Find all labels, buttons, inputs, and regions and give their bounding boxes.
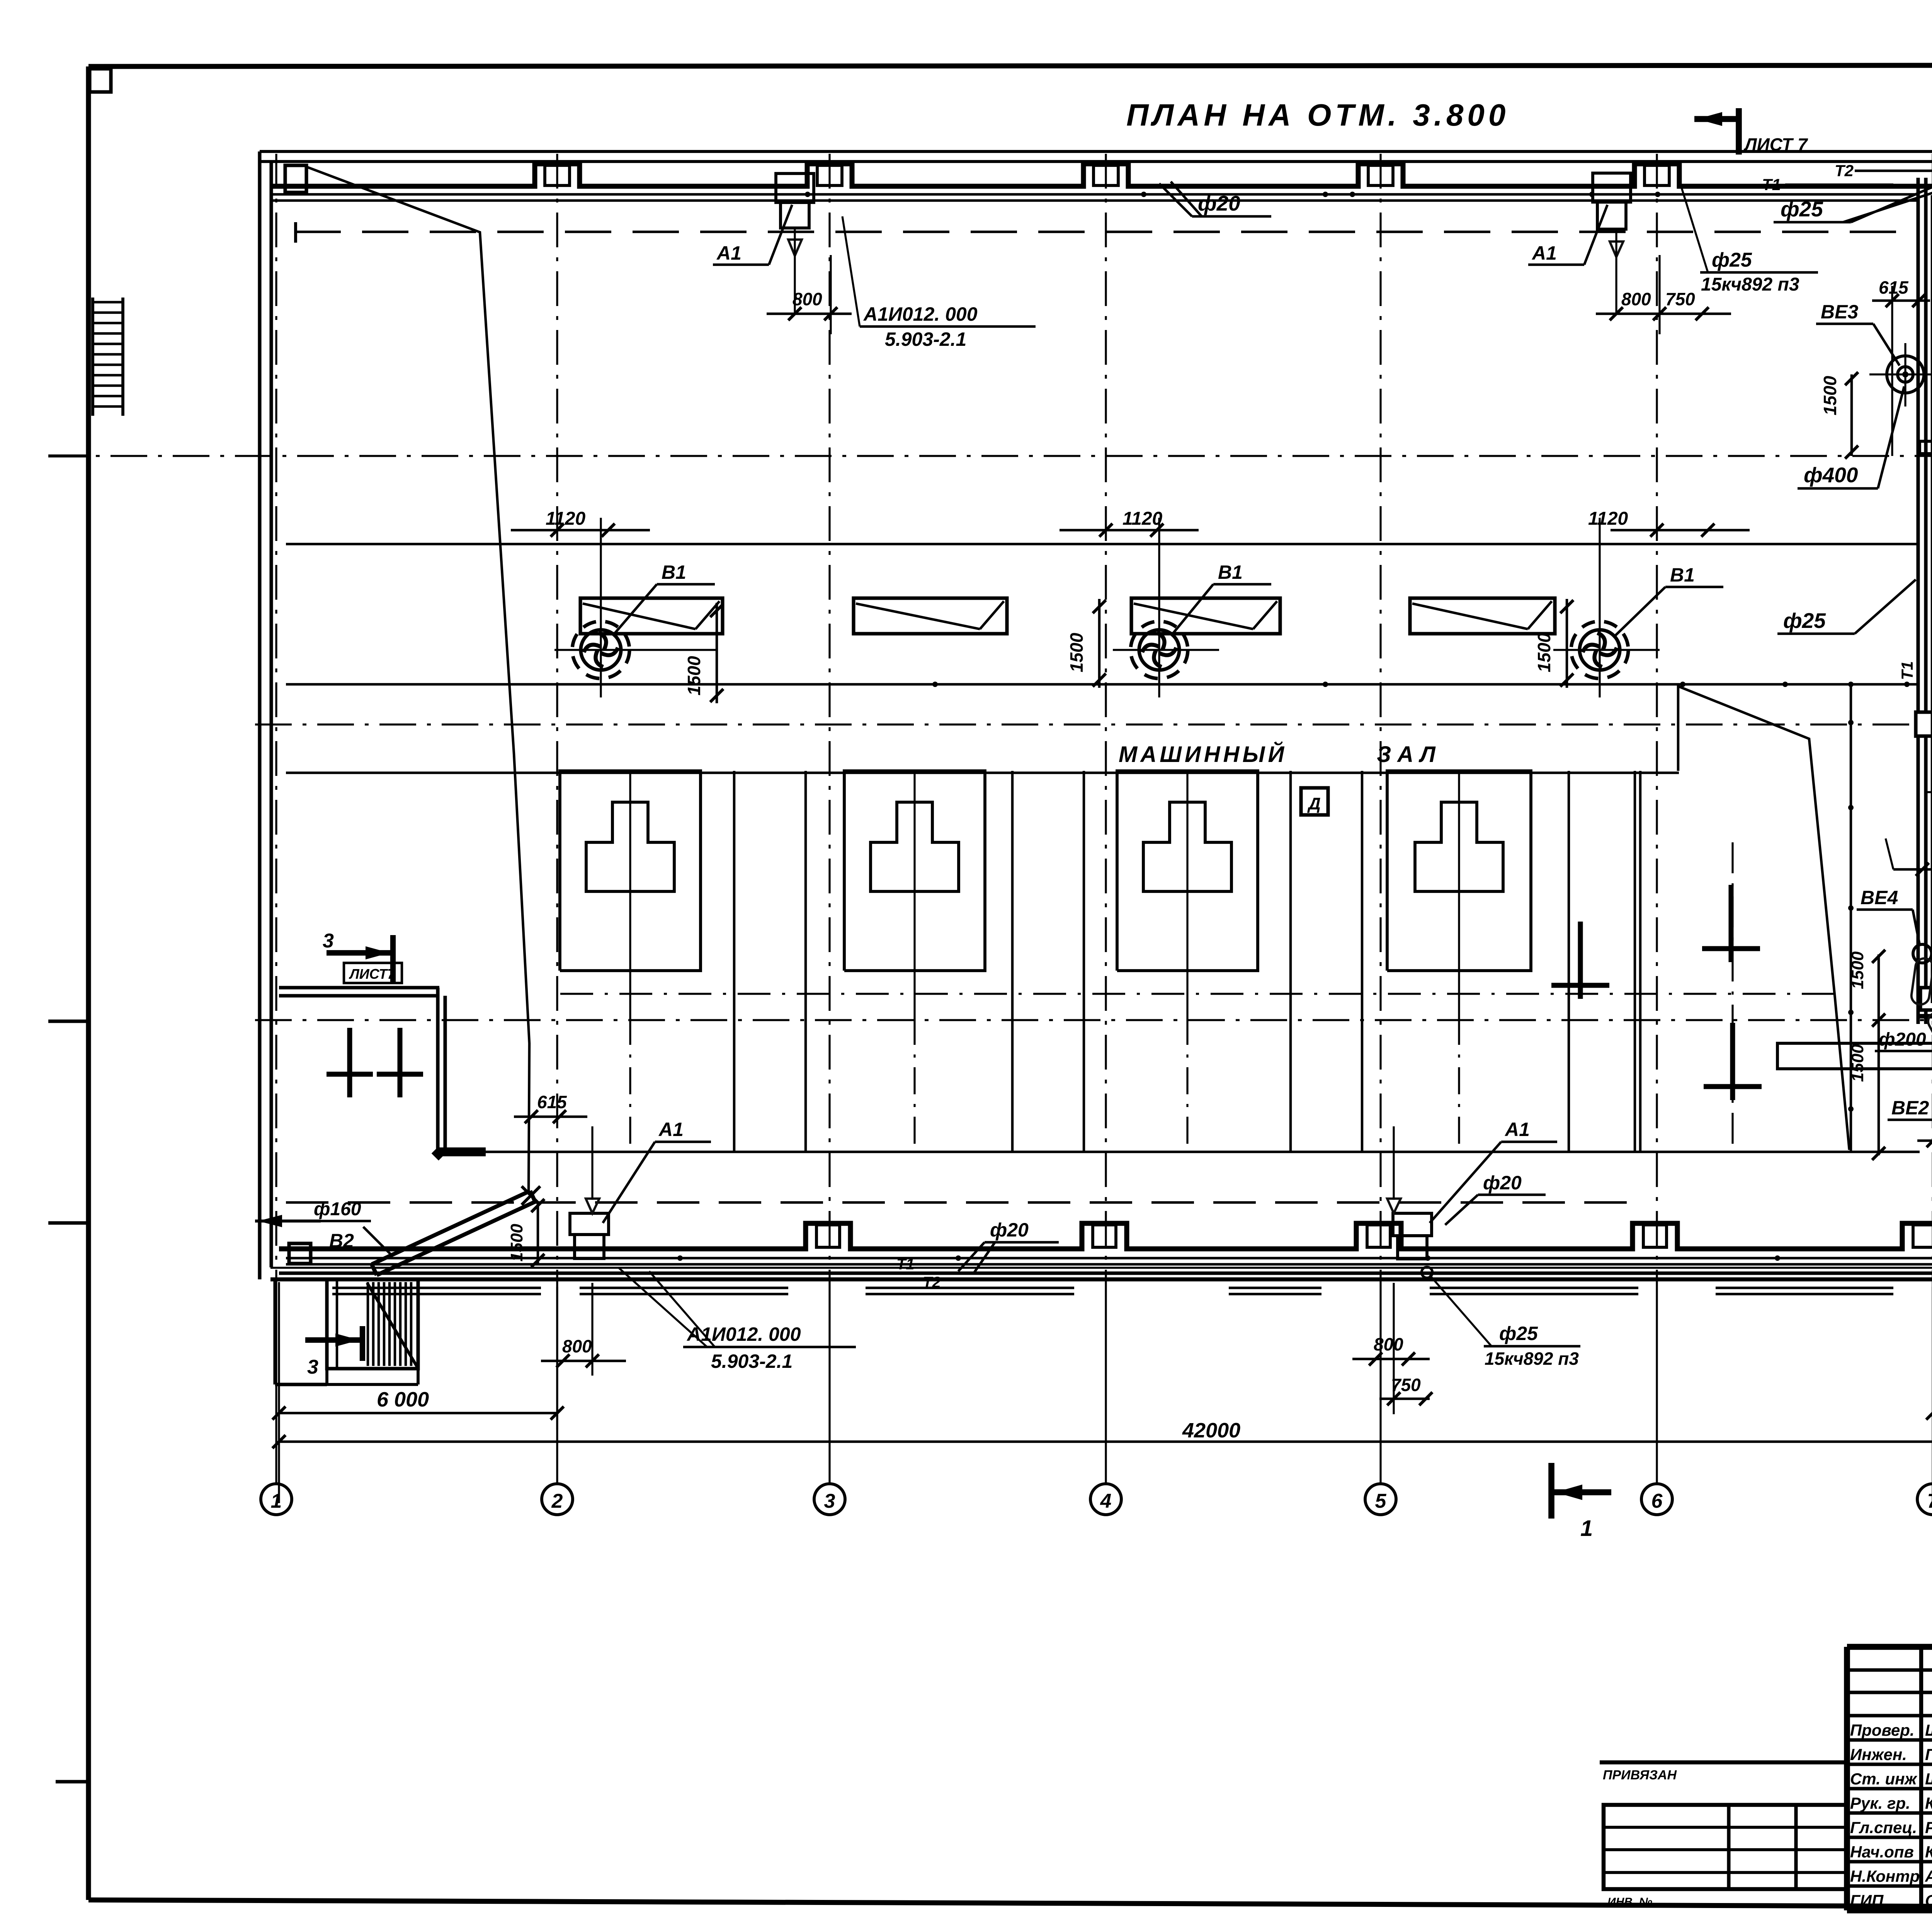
dimension 800 750 bottom center <box>1352 1283 1432 1414</box>
svg-text:ф20: ф20 <box>990 1219 1029 1241</box>
top wall heating pipe T1 meander with column niches <box>271 164 1920 186</box>
svg-text:Ст. инж: Ст. инж <box>1850 1770 1917 1788</box>
svg-text:ГИП: ГИП <box>1850 1891 1884 1910</box>
label ф20 bottom right of unit <box>1445 1172 1546 1225</box>
compressor machines T-shaped outlines <box>586 773 1503 1144</box>
corner column axis1 <box>285 165 306 192</box>
svg-text:РЫВКИС: РЫВКИС <box>1925 1818 1932 1837</box>
Т1 riser pipes along partition <box>1898 195 1932 1003</box>
svg-text:800: 800 <box>1374 1334 1403 1354</box>
svg-text:В1: В1 <box>662 561 686 583</box>
section mark 3 upper left <box>323 930 402 983</box>
vertical grid axis dash-dot lines 1-8 <box>276 154 1932 1484</box>
svg-text:6 000: 6 000 <box>377 1388 429 1411</box>
detail marker Д box in hall <box>1301 788 1328 815</box>
dimension 615 left <box>514 1092 587 1123</box>
left frame tick marks <box>48 456 90 1782</box>
svg-text:1120: 1120 <box>1588 509 1628 529</box>
label А1И012.000 5.903-2.1 top left <box>842 216 1036 350</box>
bottom outer apron band segments <box>332 1288 1932 1294</box>
label ф25 15кч892п3 bottom <box>1422 1267 1580 1369</box>
svg-text:Т2: Т2 <box>1835 162 1854 180</box>
grid circles 1-8 bottom <box>261 1484 1932 1515</box>
svg-text:7: 7 <box>1927 1490 1932 1512</box>
svg-text:В1: В1 <box>1670 564 1695 586</box>
svg-text:Т1: Т1 <box>896 1256 915 1273</box>
svg-text:1500: 1500 <box>1534 633 1554 672</box>
svg-text:4: 4 <box>1100 1490 1112 1512</box>
labels Т1 Т2 bottom center <box>896 1256 941 1291</box>
top wall column boxes at axes <box>545 165 1669 185</box>
svg-text:Д: Д <box>1307 794 1321 813</box>
svg-text:ПРИВЯЗАН: ПРИВЯЗАН <box>1603 1768 1677 1782</box>
svg-text:42000: 42000 <box>1182 1419 1240 1442</box>
svg-text:1500: 1500 <box>1066 633 1087 672</box>
svg-text:800: 800 <box>562 1336 592 1356</box>
svg-text:800: 800 <box>793 289 822 309</box>
partition wall between hall and annex <box>1918 178 1926 1024</box>
machine room south line <box>439 1151 1920 1153</box>
horizontal grid axis dash-dot lines А-Д <box>48 182 1932 1268</box>
bottom air unit А1 left <box>570 1119 711 1259</box>
fan В1 leader labels <box>614 561 1723 638</box>
labels Т1 Т2 top <box>1762 162 1932 194</box>
svg-text:5: 5 <box>1375 1490 1387 1512</box>
svg-text:15кч892 п3: 15кч892 п3 <box>1701 274 1799 295</box>
svg-text:Гл.спец.: Гл.спец. <box>1850 1818 1917 1837</box>
svg-text:3: 3 <box>323 930 334 952</box>
svg-text:КИРИЧЕНКО: КИРИЧЕНКО <box>1925 1794 1932 1812</box>
crane rail line upper <box>286 543 1920 546</box>
svg-text:800: 800 <box>1621 289 1651 309</box>
bench rectangle long upper <box>1777 1043 1932 1069</box>
svg-text:Рук. гр.: Рук. гр. <box>1850 1794 1910 1812</box>
svg-text:КОМОВ: КОМОВ <box>1925 1843 1932 1861</box>
svg-text:ОСТАШЕВСКИЙ: ОСТАШЕВСКИЙ <box>1925 1891 1932 1910</box>
svg-text:1120: 1120 <box>1122 509 1163 529</box>
machine foundation bays <box>560 771 1531 971</box>
В2 drain arrow and labels <box>255 1199 390 1254</box>
long diagonal line from top-left corner to bottom <box>307 167 529 1192</box>
section mark 3 lower left <box>305 1326 362 1378</box>
dimension 800 750 top right <box>1596 255 1731 334</box>
inclined conveyor ladder <box>372 1186 540 1275</box>
svg-text:1500: 1500 <box>507 1224 526 1262</box>
fan dimension 1120 labels with dim lines <box>511 509 1750 537</box>
svg-text:Нач.опв: Нач.опв <box>1850 1843 1914 1861</box>
label ф25 mid annex leader <box>1777 580 1916 634</box>
svg-text:АРАПОВА: АРАПОВА <box>1925 1867 1932 1885</box>
bottom wall heating pipe meander with column niches <box>286 1223 1932 1249</box>
svg-text:МАШИННЫЙ: МАШИННЫЙ <box>1119 742 1287 767</box>
small column box bottom left <box>289 1243 311 1264</box>
dimension 800 top left <box>767 255 852 334</box>
large diagonal quad right side of hall <box>1635 684 1854 1152</box>
registration box top-left corner <box>90 69 111 92</box>
svg-text:ЛИСТ 7: ЛИСТ 7 <box>1743 134 1808 155</box>
air unit А1 top near axis 2 <box>713 173 814 313</box>
svg-text:3: 3 <box>824 1490 835 1512</box>
svg-text:А1И012. 000: А1И012. 000 <box>863 303 978 325</box>
label ф20 top center with leader <box>1159 182 1271 216</box>
dimension 6000 right <box>1926 1384 1932 1420</box>
svg-text:5.903-2.1: 5.903-2.1 <box>711 1350 793 1372</box>
ventilation louvers top band <box>580 598 1555 634</box>
svg-text:А1: А1 <box>1531 242 1557 264</box>
left attachment table <box>1600 1762 1847 1908</box>
svg-text:6: 6 <box>1651 1490 1663 1512</box>
ВЕ4 fan small with flexible duct <box>1857 887 1932 1006</box>
svg-text:ЩЕТКОВСКИЙ: ЩЕТКОВСКИЙ <box>1925 1720 1932 1739</box>
vertical dash line through right crosses <box>1731 842 1733 1144</box>
label А1И012.000 5.903-2.1 bottom <box>618 1267 856 1372</box>
svg-text:ф25: ф25 <box>1712 249 1752 271</box>
bottom wall outer lines <box>270 1273 1932 1279</box>
label ф25 top right with leader <box>1774 174 1932 222</box>
column boxes on partition at В and Б <box>1916 712 1932 1010</box>
svg-text:3: 3 <box>307 1356 318 1378</box>
svg-text:615: 615 <box>537 1092 567 1112</box>
svg-text:1500: 1500 <box>1848 951 1867 989</box>
svg-text:ф20: ф20 <box>1483 1172 1522 1194</box>
roof fan В1 symbols <box>554 518 717 697</box>
ВЕ1 label and dims <box>1886 712 1932 876</box>
bottom air unit А1 right near axis 5 <box>1387 1119 1557 1259</box>
title block outer box <box>1847 1647 1932 1910</box>
air unit А1 top near axis 6 <box>1528 173 1631 315</box>
svg-text:ВЕ3: ВЕ3 <box>1821 301 1858 323</box>
svg-text:ЛИСТ7: ЛИСТ7 <box>349 966 396 982</box>
section mark 1 bottom <box>1551 1463 1611 1541</box>
svg-text:В2: В2 <box>329 1230 354 1252</box>
floor drain ВЕ3 with dims <box>1798 277 1932 488</box>
svg-text:ГЕНДЗЕЛЕВСКАЯ И.КН: ГЕНДЗЕЛЕВСКАЯ И.КН <box>1925 1745 1932 1764</box>
svg-text:Т1: Т1 <box>1898 661 1916 680</box>
bay separator partition lines <box>734 771 1640 1152</box>
svg-text:ВЕ4: ВЕ4 <box>1861 887 1898 908</box>
operator room bottom wall at Б with pipes <box>1917 996 1932 1016</box>
svg-text:1500: 1500 <box>1848 1044 1867 1082</box>
svg-text:ф160: ф160 <box>314 1199 361 1219</box>
top wall twin pipe lines <box>272 192 1918 201</box>
svg-text:ПЛАН НА ОТМ. 3.800: ПЛАН НА ОТМ. 3.800 <box>1126 98 1509 132</box>
dimension 6000 left <box>272 1388 564 1420</box>
svg-text:1500: 1500 <box>684 656 704 696</box>
hall lower line <box>286 772 1679 774</box>
svg-text:А1: А1 <box>1504 1119 1530 1140</box>
svg-text:1120: 1120 <box>546 509 586 529</box>
pipe line along top wall dashed <box>294 222 1920 243</box>
top wall inner face line annex part <box>1920 184 1932 189</box>
svg-text:ИНВ. №: ИНВ. № <box>1607 1896 1652 1908</box>
svg-text:1: 1 <box>1580 1516 1593 1541</box>
svg-text:750: 750 <box>1665 289 1695 309</box>
interior wall stub to machine area <box>432 1146 486 1161</box>
svg-text:1: 1 <box>271 1490 282 1512</box>
partition pipe pair and flange <box>1920 195 1932 549</box>
fan dimension 1500 rotated labels <box>684 599 1573 703</box>
label ф20 bottom center with leaders <box>958 1219 1059 1273</box>
svg-text:750: 750 <box>1391 1375 1421 1395</box>
svg-text:ЩЕТКОВСКИЙ: ЩЕТКОВСКИЙ <box>1925 1769 1932 1788</box>
svg-text:ф20: ф20 <box>1198 191 1240 215</box>
bottom wall inner face left stub <box>279 1247 286 1252</box>
left wall double line <box>260 151 271 1279</box>
pipe line mid hall with junction dots <box>286 682 1920 687</box>
svg-text:ВЕ2: ВЕ2 <box>1891 1097 1929 1119</box>
title block signature rows text <box>1850 1720 1932 1910</box>
dashed pipe line above bottom wall <box>286 1201 1635 1204</box>
exhaust fan ВЕ1 with ф710 <box>1926 698 1932 840</box>
exterior stairwell bottom left <box>275 1279 418 1384</box>
svg-text:5.903-2.1: 5.903-2.1 <box>885 328 966 350</box>
svg-text:А1: А1 <box>716 242 742 264</box>
svg-text:В1: В1 <box>1218 561 1243 583</box>
hall dash line between Б and В <box>560 993 1833 995</box>
interior wall left annex vertical <box>438 988 445 1153</box>
svg-text:ф400: ф400 <box>1804 463 1858 487</box>
svg-text:ф200: ф200 <box>1879 1029 1926 1050</box>
section mark 1 top with sheet 7 label <box>1694 108 1808 155</box>
svg-text:Н.Контр: Н.Контр <box>1850 1867 1920 1885</box>
svg-text:15кч892 п3: 15кч892 п3 <box>1485 1349 1579 1369</box>
label ф25 15кч892 п3 top <box>1681 185 1818 295</box>
exterior side ladder top left <box>93 298 123 416</box>
svg-text:2: 2 <box>551 1490 563 1512</box>
title block signature table grid <box>1847 1647 1932 1910</box>
top wall outer window band lines <box>260 151 1932 162</box>
svg-text:ф25: ф25 <box>1781 197 1823 221</box>
dimension line 42000 <box>272 1282 1932 1503</box>
svg-text:ф25: ф25 <box>1783 609 1826 633</box>
interior wall left annex horizontal at Б <box>279 988 439 996</box>
dims 1500 1500 200 615 near ВЕ2 <box>1848 949 1932 1160</box>
dimension 1500 left rotated <box>507 1199 544 1267</box>
svg-text:Провер.: Провер. <box>1850 1721 1915 1739</box>
svg-text:Инжен.: Инжен. <box>1850 1745 1907 1764</box>
svg-text:ф25: ф25 <box>1499 1323 1538 1344</box>
ВЕ2 fan with flexible duct <box>1888 1010 1932 1120</box>
svg-text:ЗАЛ: ЗАЛ <box>1377 742 1442 767</box>
svg-text:Т1: Т1 <box>1762 175 1781 194</box>
svg-text:1500: 1500 <box>1820 376 1840 415</box>
svg-text:Т2: Т2 <box>923 1274 941 1291</box>
dimension 800 bottom left <box>541 1283 626 1376</box>
floor crosses plus marks <box>327 885 1762 1100</box>
bottom wall column boxes <box>816 1225 1932 1247</box>
svg-text:А1: А1 <box>658 1119 684 1140</box>
bottom wall twin pipe lines <box>286 1255 1932 1264</box>
svg-text:615: 615 <box>1879 277 1909 298</box>
